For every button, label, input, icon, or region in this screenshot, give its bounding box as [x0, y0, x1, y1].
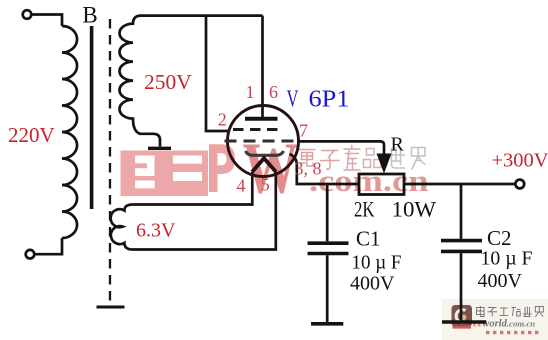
svg-text:10 µ F: 10 µ F — [481, 248, 533, 270]
svg-text:400V: 400V — [350, 273, 395, 295]
eeworld logo square — [452, 305, 473, 329]
svg-text:400V: 400V — [478, 270, 523, 292]
arrow head R — [377, 154, 392, 174]
wire bottom-left — [34, 238, 62, 254]
primary terminal top — [23, 10, 32, 19]
core ground bar — [97, 306, 125, 309]
output terminal — [515, 180, 524, 189]
wire to C2 — [460, 184, 463, 239]
tube grid 2 dashes — [225, 140, 300, 143]
wire resistor to output terminal — [404, 183, 515, 186]
svg-text:220V: 220V — [8, 123, 55, 147]
svg-text:6P1: 6P1 — [309, 86, 350, 113]
svg-text:3, 8: 3, 8 — [295, 159, 322, 179]
svg-text:eeworld.com.cn: eeworld.com.cn — [473, 319, 535, 330]
wire 6.3V top to pin 4 — [133, 172, 253, 205]
C2 ground bar — [442, 320, 486, 324]
250V winding ground bar — [148, 147, 171, 150]
secondary winding 250V — [119, 16, 160, 147]
svg-text:B: B — [82, 3, 97, 28]
svg-text:7: 7 — [299, 121, 308, 141]
svg-text:6: 6 — [269, 82, 278, 102]
tube anode plate — [245, 117, 278, 121]
svg-text:2: 2 — [218, 110, 227, 130]
C2 plates — [441, 241, 482, 252]
wire pin 3,8 to resistor — [290, 154, 360, 184]
top rail wire — [141, 14, 263, 17]
watermark band EE — [121, 151, 209, 197]
resistor R body — [359, 174, 404, 195]
svg-text:10W: 10W — [392, 197, 437, 222]
svg-text:C2: C2 — [487, 226, 512, 250]
eeworld logo backdrop — [442, 299, 548, 340]
wire top-left — [31, 15, 62, 27]
svg-text:C1: C1 — [356, 227, 381, 251]
wire C1 to ground — [326, 255, 329, 322]
svg-text:V: V — [287, 86, 299, 113]
wire 6.3V bottom to pin 5 — [133, 172, 276, 250]
wire pin 7 to arrow — [299, 141, 385, 157]
wire to C1 — [326, 184, 329, 241]
eeworld logo slogan dots — [486, 331, 538, 334]
primary winding 220V — [62, 26, 77, 238]
wire to pins 1,6 anode — [261, 16, 264, 119]
C1 ground bar — [311, 322, 343, 326]
svg-text:1: 1 — [246, 82, 255, 102]
tube cathode bar — [246, 151, 284, 155]
tube V envelope — [228, 106, 299, 177]
svg-text:250V: 250V — [144, 70, 192, 94]
watermark chars 電子産品世界 — [299, 146, 425, 171]
watermark P — [209, 144, 235, 192]
svg-text:10 µ F: 10 µ F — [352, 252, 402, 274]
svg-text:2K: 2K — [354, 197, 375, 222]
wire C2 to ground — [460, 253, 463, 320]
tube grid 1 dashes — [233, 128, 281, 131]
core bar solid — [90, 26, 94, 209]
heater winding 6.3V — [111, 205, 133, 250]
svg-text:+300V: +300V — [492, 150, 548, 172]
svg-text:4: 4 — [237, 176, 246, 196]
core dashed line — [109, 19, 111, 306]
svg-text:6.3V: 6.3V — [136, 220, 176, 242]
C1 plates — [308, 243, 349, 253]
primary terminal bottom — [26, 250, 35, 259]
eeworld logo text glyphs — [477, 306, 544, 317]
wire to pin 2 — [206, 16, 230, 131]
svg-text:R: R — [391, 134, 405, 156]
svg-text:5: 5 — [261, 175, 270, 195]
tube heater filament — [252, 158, 276, 172]
